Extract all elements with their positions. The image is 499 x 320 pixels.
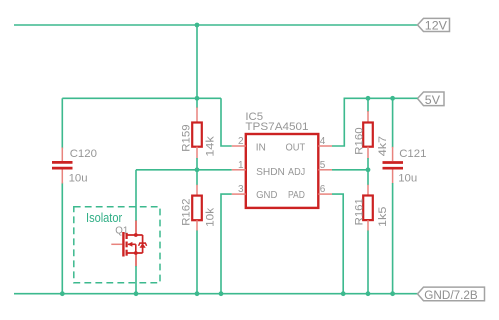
wire Q1 source to GND rail [135,266,137,294]
svg-text:1k5: 1k5 [377,207,389,227]
junction dots on symbol [134,233,138,237]
op-amp IC5 body [246,134,318,208]
gate bar [122,232,124,257]
channel dashes [125,233,127,239]
pin 6 stub PAD [318,193,332,195]
source arrow line [128,243,136,245]
svg-text:GND: GND [256,190,277,201]
junction Q1 at bottom rail [134,291,139,296]
svg-text:SHDN: SHDN [256,167,285,178]
svg-text:PAD: PAD [288,190,305,201]
svg-text:R159: R159 [181,124,193,151]
wire R162 to GND rail [196,231,198,294]
svg-text:12V: 12V [425,19,448,33]
wire 5V to R160 [367,98,369,112]
svg-text:10u: 10u [398,173,417,185]
svg-text:1: 1 [238,160,244,171]
svg-text:ADJ: ADJ [288,167,305,178]
junction R161 at bottom rail [366,291,371,296]
pin 2 stub IN [232,145,246,147]
node 5V wire y=98.3 [344,97,418,99]
wire 12V feed vertical x=197 [196,25,198,98]
pin 1 stub SHDN [232,169,246,171]
pin D stub [135,221,137,236]
junction R162 at bottom rail [195,291,200,296]
pin S stub [135,253,137,267]
capacitor C120 [52,148,73,184]
junction on 12V rail at x=197 [195,23,200,28]
wire pin6 PAD to GND rail [332,194,343,294]
node SHDN wire y=169.8 [136,169,232,171]
junction C120 at bottom rail [60,291,65,296]
svg-text:5: 5 [320,160,326,171]
svg-text:R162: R162 [181,199,193,226]
svg-text:C120: C120 [70,148,97,160]
net flag 5V [418,92,445,107]
wire to pin2 IN [221,98,232,146]
capacitor C121 [383,147,404,184]
junction GND wire at bottom rail [219,291,224,296]
svg-text:6: 6 [320,184,326,195]
pin 3 stub GND [232,193,246,195]
junction ADJ at x=368 [366,167,371,172]
net flag GND/7.2B [418,287,485,302]
bottom source line [127,252,143,254]
svg-text:10k: 10k [205,208,217,227]
wire R161 to GND rail [367,231,369,294]
isolator dashed box [74,207,160,283]
wire C120 branch vertical x=62.3 [61,98,63,148]
resistor R160 [363,111,373,159]
net flag 12V [418,18,450,32]
right body-diode vertical [142,235,144,253]
wire pin5 ADJ to divider [332,169,368,171]
svg-text:R160: R160 [353,127,365,154]
junction IN-net at x=197 [195,96,200,101]
svg-text:Isolator: Isolator [86,210,123,225]
resistor R162 [192,170,202,231]
svg-text:10u: 10u [69,172,88,184]
wire SHDN to isolator vertical x=136 [135,170,137,221]
svg-text:IN: IN [256,143,266,154]
top drain line [127,234,143,236]
svg-text:TPS7A4501: TPS7A4501 [245,121,308,133]
svg-text:C121: C121 [399,148,426,160]
wire pin3 GND to rail [221,194,232,294]
svg-text:R161: R161 [353,198,365,225]
junction PAD at bottom rail [341,291,346,296]
svg-text:4: 4 [320,136,326,147]
svg-text:2: 2 [238,136,244,147]
svg-text:OUT: OUT [286,143,306,154]
wire 5V to C121 [392,98,394,147]
body diode [139,242,145,244]
net GND/7.2B bottom rail wire [14,293,418,295]
svg-text:4k7: 4k7 [377,136,389,156]
wire R160 to ADJ [367,158,369,170]
wire pin4 OUT to 5V net [332,98,344,146]
junction SHDN divider at x=197 [195,167,200,172]
junction 5V at C121 [390,96,395,101]
svg-text:GND/7.2B: GND/7.2B [424,288,477,302]
pin G stub [111,243,122,245]
junction 5V at R160 [366,96,371,101]
transistor Q1 P-MOSFET [111,221,146,267]
svg-text:14k: 14k [205,136,217,157]
svg-text:5V: 5V [425,93,441,107]
pin 5 stub ADJ [318,169,332,171]
pin 4 stub OUT [318,145,332,147]
resistor R161 [363,170,373,231]
node IN-net horizontal wire y=98.3 [62,97,221,99]
wire C121 to GND rail [392,183,394,294]
resistor R159 [192,98,202,170]
net 12V top rail wire [14,24,418,26]
junction C121 at bottom rail [390,291,395,296]
svg-text:3: 3 [238,184,244,195]
